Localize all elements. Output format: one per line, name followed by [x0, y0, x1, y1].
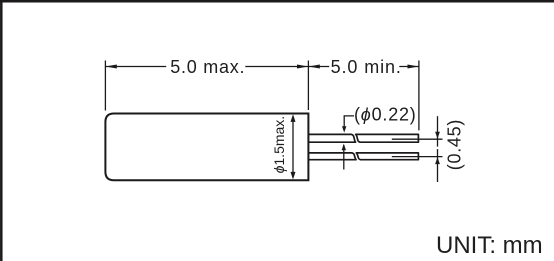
svg-text:5.0 max.: 5.0 max.	[170, 57, 245, 77]
svg-text:(0.45): (0.45)	[445, 119, 465, 170]
svg-text:UNIT: mm: UNIT: mm	[436, 232, 543, 259]
svg-text:ϕ1.5max.: ϕ1.5max.	[271, 116, 287, 174]
svg-text:5.0 min.: 5.0 min.	[331, 57, 402, 77]
svg-text:(ϕ0.22): (ϕ0.22)	[354, 105, 417, 125]
